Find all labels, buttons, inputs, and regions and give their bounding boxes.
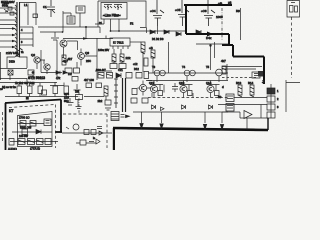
arrow thick mid <box>207 32 213 37</box>
svg-text:D4x: D4x <box>206 36 212 40</box>
wire rail H3 <box>63 38 113 40</box>
wire R2 drop <box>152 58 154 73</box>
bottom parts row: cap C7 <box>126 73 132 79</box>
diode D1 <box>56 71 60 74</box>
connector CN1 pin2 <box>267 96 275 102</box>
transformer T1 end cluster <box>15 48 23 55</box>
output Q13 internals <box>182 87 185 91</box>
diode D5 cluster <box>176 32 181 36</box>
arrow tap 7 <box>12 40 16 43</box>
svg-text:Q2: Q2 <box>31 53 35 57</box>
svg-text:4k7: 4k7 <box>68 57 73 61</box>
svg-text:STR 50113: STR 50113 <box>28 76 45 80</box>
resistor R12 <box>104 86 108 96</box>
svg-text:±12V 0.5A: ±12V 0.5A <box>6 51 19 55</box>
svg-text:+C6: +C6 <box>201 9 207 13</box>
row1 part b <box>30 121 36 127</box>
trimmer VR1 <box>226 94 234 102</box>
diode D8 <box>152 105 156 109</box>
thyristor Q5 <box>160 70 166 76</box>
output Q12 <box>150 85 157 92</box>
bridge BR1 cap cluster 1 <box>153 0 164 26</box>
svg-text:31: 31 <box>99 21 103 25</box>
IC1 pins <box>113 46 128 49</box>
transformer T1 secondary rail B <box>20 32 34 34</box>
wire right edge <box>286 80 300 112</box>
svg-text:+C4: +C4 <box>150 9 156 13</box>
arrow A3 <box>203 112 206 129</box>
wire rail H4 <box>111 30 187 32</box>
transformer T1 secondary rail C <box>20 38 34 40</box>
arrow H3 <box>83 37 88 40</box>
transistor Q3 <box>44 64 50 70</box>
thick box A stub <box>55 131 62 133</box>
arrow A4 <box>220 112 223 130</box>
wire riser x168 <box>168 42 170 73</box>
svg-text:D2: D2 <box>68 72 72 76</box>
resistor R5 <box>112 54 116 62</box>
resistor R1 <box>62 55 66 65</box>
cap C12 marks <box>66 127 102 130</box>
row1 wire <box>18 123 45 125</box>
wire secondary vertical <box>32 27 34 47</box>
wire bottom row rail <box>95 70 112 72</box>
arrow tap 8 <box>12 46 16 49</box>
capacitor C1 <box>47 0 55 17</box>
resistor R7 <box>110 64 117 69</box>
row3 left part <box>9 139 14 146</box>
cap C11 dashes <box>172 83 178 92</box>
svg-text:D1 D2 D3: D1 D2 D3 <box>152 37 164 41</box>
wire R4 drop <box>142 52 144 72</box>
wire Q13 cluster <box>180 81 193 98</box>
bridge BR1 cap cluster 3 <box>204 0 215 26</box>
IC1 box <box>110 38 130 46</box>
bottom parts row: cap C8 <box>136 73 142 79</box>
thick bus step <box>222 34 264 84</box>
posistor P1 <box>8 70 13 75</box>
connector CN1 spine <box>270 84 272 118</box>
wire rail H9 <box>146 80 228 82</box>
wire Q1 emitter down <box>63 47 65 58</box>
connector CN1 pin1 <box>267 88 275 94</box>
wire rail y78 <box>0 78 27 80</box>
row3 part d <box>45 139 51 145</box>
wire rail H8 <box>5 96 78 98</box>
wire rail H10 <box>133 111 228 113</box>
output Q13 <box>180 85 187 92</box>
bottom mid parts row <box>73 124 103 135</box>
svg-text:≈Line Filter≈: ≈Line Filter≈ <box>103 14 121 18</box>
cap C10 <box>105 100 111 105</box>
diode D2 <box>63 71 67 74</box>
transistor Q2 <box>34 57 40 63</box>
module M1 inner box <box>101 3 127 20</box>
thermal P2 <box>28 70 34 75</box>
wire y44 thin <box>196 43 228 45</box>
dashed box D3 top <box>9 105 107 149</box>
wire mid riser <box>56 40 58 80</box>
wire U2 <box>239 112 241 118</box>
svg-text:100 5W: 100 5W <box>19 134 28 138</box>
wire rail H1 <box>38 26 100 28</box>
wire P2 drop <box>32 75 34 80</box>
node J2 <box>85 26 87 28</box>
wire rail y82 <box>0 82 57 84</box>
transformer T1 primary rail 1 <box>0 7 17 9</box>
svg-text:Ji: Ji <box>262 80 265 84</box>
dashed line DL1 <box>291 17 293 78</box>
wire inner vertical <box>27 4 29 26</box>
bridge BR1 cap cluster 2 <box>178 0 189 26</box>
part Q13r <box>188 91 193 96</box>
wire top stub <box>20 3 37 26</box>
bottom mid cluster wire <box>76 142 96 144</box>
hang part HP1 <box>17 82 22 97</box>
row1 part c <box>44 119 51 126</box>
svg-text:z8: z8 <box>228 1 232 5</box>
part X5 <box>86 83 92 88</box>
svg-text:+12: +12 <box>133 62 138 66</box>
part X9 <box>142 98 148 103</box>
winding W1 <box>104 5 112 11</box>
transformer T1 primary rail 3 <box>0 19 17 21</box>
thick box A left <box>5 103 7 150</box>
arrow A2 <box>160 112 163 129</box>
wire J2 drop <box>85 27 87 39</box>
thick bus main <box>113 128 268 130</box>
svg-text:Q9: Q9 <box>85 51 89 55</box>
svg-text:C1: C1 <box>43 5 47 9</box>
wire rail H5 <box>41 72 62 74</box>
box B4 part a <box>290 6 294 13</box>
transformer T1 primary rail 4 <box>0 24 17 26</box>
thick bus T-top <box>184 4 232 6</box>
hang part HP4 <box>53 82 58 97</box>
row3 wire <box>10 141 58 143</box>
transistor Q10 <box>79 90 81 92</box>
wire P1 drop <box>9 75 11 80</box>
cap C13 gnd <box>74 84 81 93</box>
thick bus vertical <box>185 5 187 34</box>
svg-text:(w) ao tur ko: (w) ao tur ko <box>2 86 17 89</box>
dashed DL3 <box>222 77 256 79</box>
wire right riser <box>240 8 242 40</box>
component X11 <box>33 14 38 18</box>
svg-text:50Ω: 50Ω <box>64 100 69 103</box>
opto U2 triangle <box>244 111 252 119</box>
diode D10 <box>182 105 186 109</box>
svg-text:DEG: DEG <box>9 60 15 64</box>
cap C9 gnd <box>67 98 74 105</box>
wire Q9 stubs <box>81 49 97 66</box>
wire module drop 2 <box>118 19 120 31</box>
hang part HP5 <box>64 86 69 97</box>
diode D6 cluster <box>196 30 201 34</box>
wire left riser x97 <box>96 38 98 80</box>
bus pair down <box>123 78 126 112</box>
wire corner <box>148 80 153 82</box>
diode D11 <box>209 105 213 109</box>
svg-text:1k 2k2 4u7 R22: 1k 2k2 4u7 R22 <box>15 81 35 85</box>
svg-text:2SC: 2SC <box>86 59 91 63</box>
transistor Q9 internals <box>80 54 83 58</box>
thyristor Q4 <box>154 70 160 76</box>
svg-text:2k2: 2k2 <box>98 99 103 103</box>
wire IC1 right <box>130 41 141 43</box>
wire X1 stub <box>79 13 81 27</box>
wire mid join <box>84 96 106 100</box>
svg-text:R14: R14 <box>248 81 254 85</box>
wire Q11 <box>138 81 152 96</box>
dashed rail y97 <box>148 97 228 99</box>
wire rail H7 <box>148 72 228 74</box>
wire H14c <box>222 111 240 113</box>
svg-text:Q13: Q13 <box>179 81 185 85</box>
part X7 <box>132 89 137 95</box>
diode D9 <box>161 107 165 111</box>
degauss box B5 <box>7 55 27 69</box>
svg-text:50Hz: 50Hz <box>2 4 9 8</box>
resistor R2 vertical <box>151 50 155 58</box>
wire H3 end ticks <box>100 27 106 39</box>
dashed box D3 right <box>106 114 108 148</box>
driver Q11 <box>139 84 146 91</box>
svg-text:th: th <box>21 50 24 54</box>
svg-text:L1: L1 <box>24 3 28 7</box>
wire R drops <box>114 49 122 64</box>
node J1 <box>62 31 64 33</box>
dark blob coil end <box>258 71 263 77</box>
row2 wire <box>12 131 52 133</box>
svg-text:R9: R9 <box>236 9 240 13</box>
row3 part b <box>28 139 35 145</box>
thick box A right <box>60 100 62 133</box>
hang part HP2 <box>28 83 33 97</box>
wire box bottom rail <box>0 68 27 70</box>
component X1 box <box>76 6 85 13</box>
row2 part a <box>22 129 28 135</box>
wire module left stub <box>95 19 104 24</box>
row1 part a <box>20 121 26 127</box>
part X4 <box>76 95 83 100</box>
part X6 <box>96 83 102 88</box>
wire H14a <box>234 97 267 99</box>
thick box right edge <box>113 128 115 150</box>
left frame edge <box>0 52 2 80</box>
thick bus mid <box>186 33 229 35</box>
svg-text:R33 4k7: R33 4k7 <box>96 68 106 72</box>
thyristor Q8 <box>216 69 223 76</box>
wire Q12 cluster <box>150 81 164 98</box>
wire right riser x227 <box>226 64 228 80</box>
capacitor C3 pair <box>65 68 80 73</box>
node rail31 a <box>110 30 112 32</box>
transformer T1 core <box>17 2 20 57</box>
wire module drop 1 <box>110 19 112 31</box>
transformer T1 primary rail 2 <box>0 12 17 14</box>
node J3 <box>209 44 211 46</box>
transformer T1 secondary rail D <box>20 44 34 46</box>
resistor R6 <box>120 54 124 62</box>
svg-text:2700 1C: 2700 1C <box>19 116 30 120</box>
node rail31 b <box>118 30 120 32</box>
wire K1 top <box>63 11 71 32</box>
part X8 <box>131 98 137 103</box>
row3 part a <box>18 139 25 145</box>
svg-text:F2: F2 <box>130 22 134 26</box>
wire Q1 collector right <box>67 41 78 50</box>
row3 part c <box>37 139 44 145</box>
svg-text:Q12: Q12 <box>149 81 155 85</box>
wire drop c1 <box>151 93 153 98</box>
box B4 tick <box>291 0 295 3</box>
svg-text:+C5: +C5 <box>175 8 181 12</box>
resistor R14 <box>250 85 254 97</box>
ground G1 <box>51 32 59 40</box>
fuse F1 <box>8 7 14 15</box>
module M1 outer box <box>98 1 146 27</box>
wire bus right vert <box>267 118 269 130</box>
resistor R8 <box>119 64 126 69</box>
driver Q11 internals <box>142 86 145 90</box>
thick box A top <box>5 100 61 104</box>
trimmer VR2 <box>226 104 234 112</box>
connector CN1 pin4 <box>267 112 275 118</box>
transistor Q9 <box>78 53 85 60</box>
part X12 pair <box>42 77 79 96</box>
wire rail H2 <box>40 31 63 33</box>
output Q14 <box>207 85 214 92</box>
svg-text:AUDIO: AUDIO <box>8 147 18 150</box>
wire jog x33 <box>32 83 34 87</box>
diode D3 cluster <box>150 26 158 34</box>
bottom parts row: resistor R10 <box>98 73 104 79</box>
wire X4 drop <box>77 100 79 107</box>
relay K1 box <box>67 16 75 24</box>
wire H14b <box>218 104 267 106</box>
node below rail <box>26 97 29 100</box>
wire jog x27 <box>26 79 28 87</box>
svg-text:re: re <box>0 87 3 91</box>
resistor R3 <box>222 66 226 74</box>
output Q14 internals <box>209 87 212 91</box>
transformer T1 secondary rail A <box>20 26 34 28</box>
dashed stub <box>78 92 80 114</box>
svg-text:4k7: 4k7 <box>221 59 226 63</box>
svg-text:Q14: Q14 <box>206 81 212 85</box>
part Q14r <box>215 91 220 96</box>
arrow tap 6 <box>12 34 16 37</box>
wire Q stubs <box>157 76 219 82</box>
part Q12r <box>158 91 163 96</box>
coil LS1 <box>252 72 260 78</box>
svg-text:100u 25V: 100u 25V <box>98 48 109 52</box>
thyristor Q6 <box>184 70 190 76</box>
connector CN1 pin3 <box>267 104 275 110</box>
dashed box D3 left <box>2 112 4 142</box>
transistor Q1 internals <box>62 42 65 46</box>
wire jog mid <box>50 83 64 86</box>
wire H14d <box>240 117 268 119</box>
wire x247 drop <box>246 118 248 130</box>
diode ladder DL <box>114 79 118 108</box>
wire C3 top <box>76 62 78 68</box>
ground G2 <box>76 107 82 109</box>
wire double H11b <box>222 68 256 70</box>
svg-text:50: 50 <box>218 95 222 99</box>
arrow tap 5 <box>12 27 16 30</box>
wire Q14 cluster <box>207 81 220 98</box>
transformer T1 tap rail 6 <box>0 34 15 36</box>
svg-text:22k: 22k <box>126 56 131 60</box>
node jog <box>26 82 28 84</box>
transistor Q2 internals <box>36 58 39 62</box>
diode D4 cluster <box>164 30 169 34</box>
part X10 <box>111 112 119 121</box>
svg-text:47k: 47k <box>56 76 61 80</box>
transformer T1 tap rail 7 <box>0 40 15 42</box>
resistor R4 vertical <box>141 42 145 54</box>
wire double H11a <box>222 66 262 68</box>
svg-text:R101 C55: R101 C55 <box>20 127 32 130</box>
transformer T1 tap rail 5 <box>0 28 15 30</box>
component X2 <box>144 58 148 66</box>
inner box B6 <box>18 112 53 147</box>
svg-text:+B: +B <box>149 46 153 50</box>
transistor Q3 internals <box>46 65 49 69</box>
switch S1 marks <box>4 9 8 12</box>
thyristor Q7 <box>190 70 196 76</box>
wire left riser <box>40 50 42 73</box>
wire Q2-Q3 <box>37 60 47 74</box>
bottom parts row: part X3 <box>144 72 149 79</box>
arrow A1 <box>140 112 143 129</box>
svg-text:KT: KT <box>9 109 13 113</box>
ground G3 <box>105 108 111 110</box>
transformer T1 winding bumps <box>15 5 17 47</box>
wire riser x210 <box>211 42 215 70</box>
svg-text:IC 7812: IC 7812 <box>113 41 124 45</box>
arrow X10 <box>121 115 130 118</box>
hang part HP3 <box>38 83 43 97</box>
wire module right elbow <box>140 28 147 34</box>
resistor R13 <box>238 85 242 97</box>
box B4 part b <box>295 6 298 12</box>
svg-text:4k7 100: 4k7 100 <box>84 78 94 82</box>
svg-text:(JT/U2): (JT/U2) <box>30 147 40 151</box>
dashed line DL2 <box>221 8 223 40</box>
bottom parts row: diode D7 <box>116 73 121 78</box>
winding W2 <box>114 5 122 11</box>
svg-text:C21: C21 <box>118 68 123 72</box>
svg-text:D12: D12 <box>134 67 139 71</box>
transformer T1 tap rail 8 <box>0 46 15 48</box>
bottom mid cluster <box>80 139 100 145</box>
box B4 top right <box>287 1 300 18</box>
bottom mid wire <box>62 132 112 134</box>
svg-text:R13: R13 <box>236 81 242 85</box>
row2 diode <box>36 130 41 134</box>
svg-text:1M: 1M <box>75 89 80 93</box>
bottom parts row: resistor R11 <box>107 73 113 79</box>
transistor Q1 <box>60 40 67 47</box>
wire vert x261 <box>260 105 262 119</box>
wire drop c2 <box>192 93 194 98</box>
output Q12 internals <box>153 87 156 91</box>
